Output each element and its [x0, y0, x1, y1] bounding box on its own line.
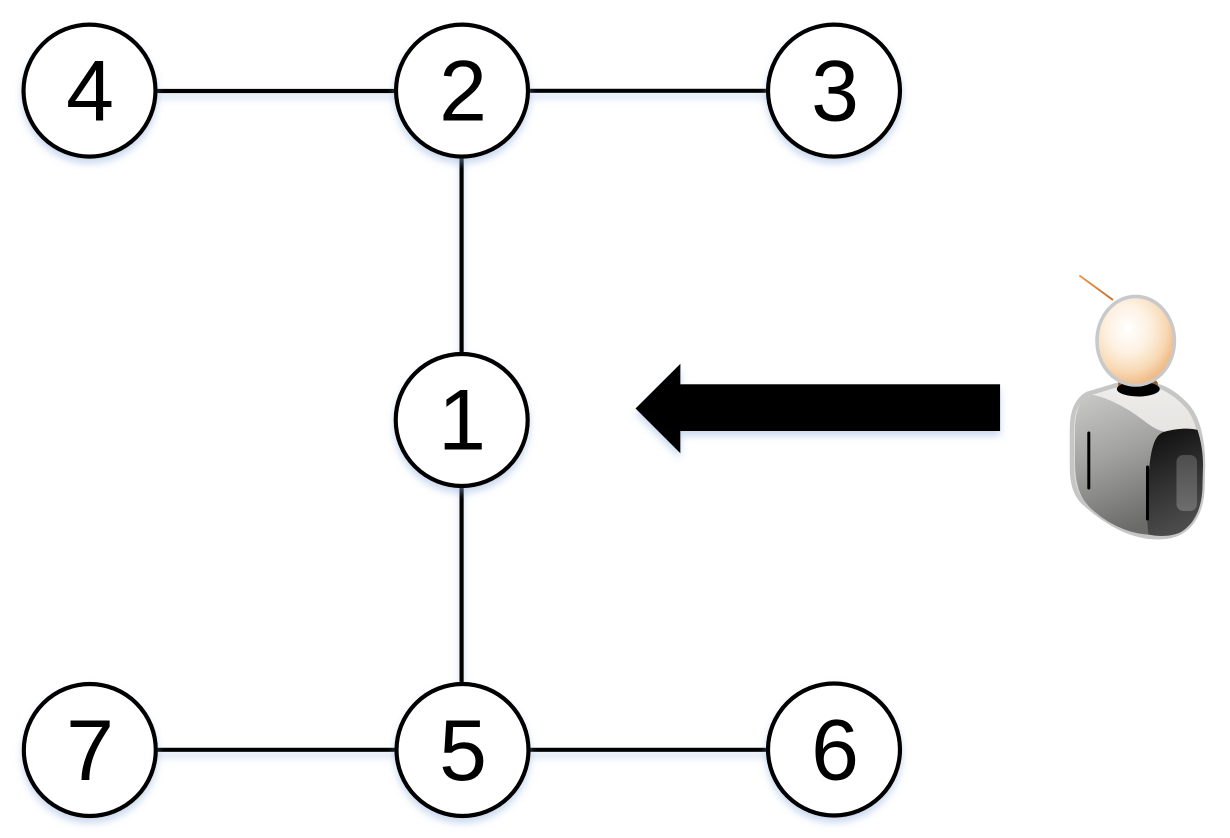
collar — [1117, 382, 1160, 397]
wire 1-5 — [460, 420, 464, 750]
svg-text:3: 3 — [811, 44, 859, 140]
wire 2-3 — [462, 89, 834, 93]
svg-text:1: 1 — [438, 373, 486, 469]
node 1 — [396, 354, 528, 486]
svg-text:6: 6 — [811, 703, 859, 799]
svg-text:7: 7 — [66, 703, 114, 799]
node 5 — [397, 684, 529, 816]
wire 4-2 — [90, 89, 462, 93]
svg-text:4: 4 — [66, 44, 114, 140]
seam line left — [1087, 433, 1090, 488]
head — [1097, 296, 1174, 385]
node 2 — [396, 25, 528, 157]
node 7 — [24, 684, 156, 816]
svg-text:5: 5 — [439, 703, 487, 799]
seam line right — [1146, 467, 1149, 519]
wire 2-1 — [460, 91, 464, 420]
person icon — [1072, 276, 1203, 538]
chest dome — [1075, 394, 1164, 535]
node 4 — [24, 25, 156, 157]
node 3 — [768, 25, 900, 157]
dark right arm — [1147, 429, 1203, 536]
arm inner panel — [1177, 455, 1198, 511]
wire 7-5 — [90, 748, 462, 752]
antenna — [1079, 276, 1113, 301]
node 6 — [768, 684, 900, 816]
torso outline + yoke fill — [1072, 385, 1203, 537]
wire 5-6 — [462, 748, 834, 752]
svg-text:2: 2 — [439, 44, 487, 140]
arrow pointing left at node 1 — [636, 364, 1001, 454]
neck shadow — [1118, 376, 1158, 392]
